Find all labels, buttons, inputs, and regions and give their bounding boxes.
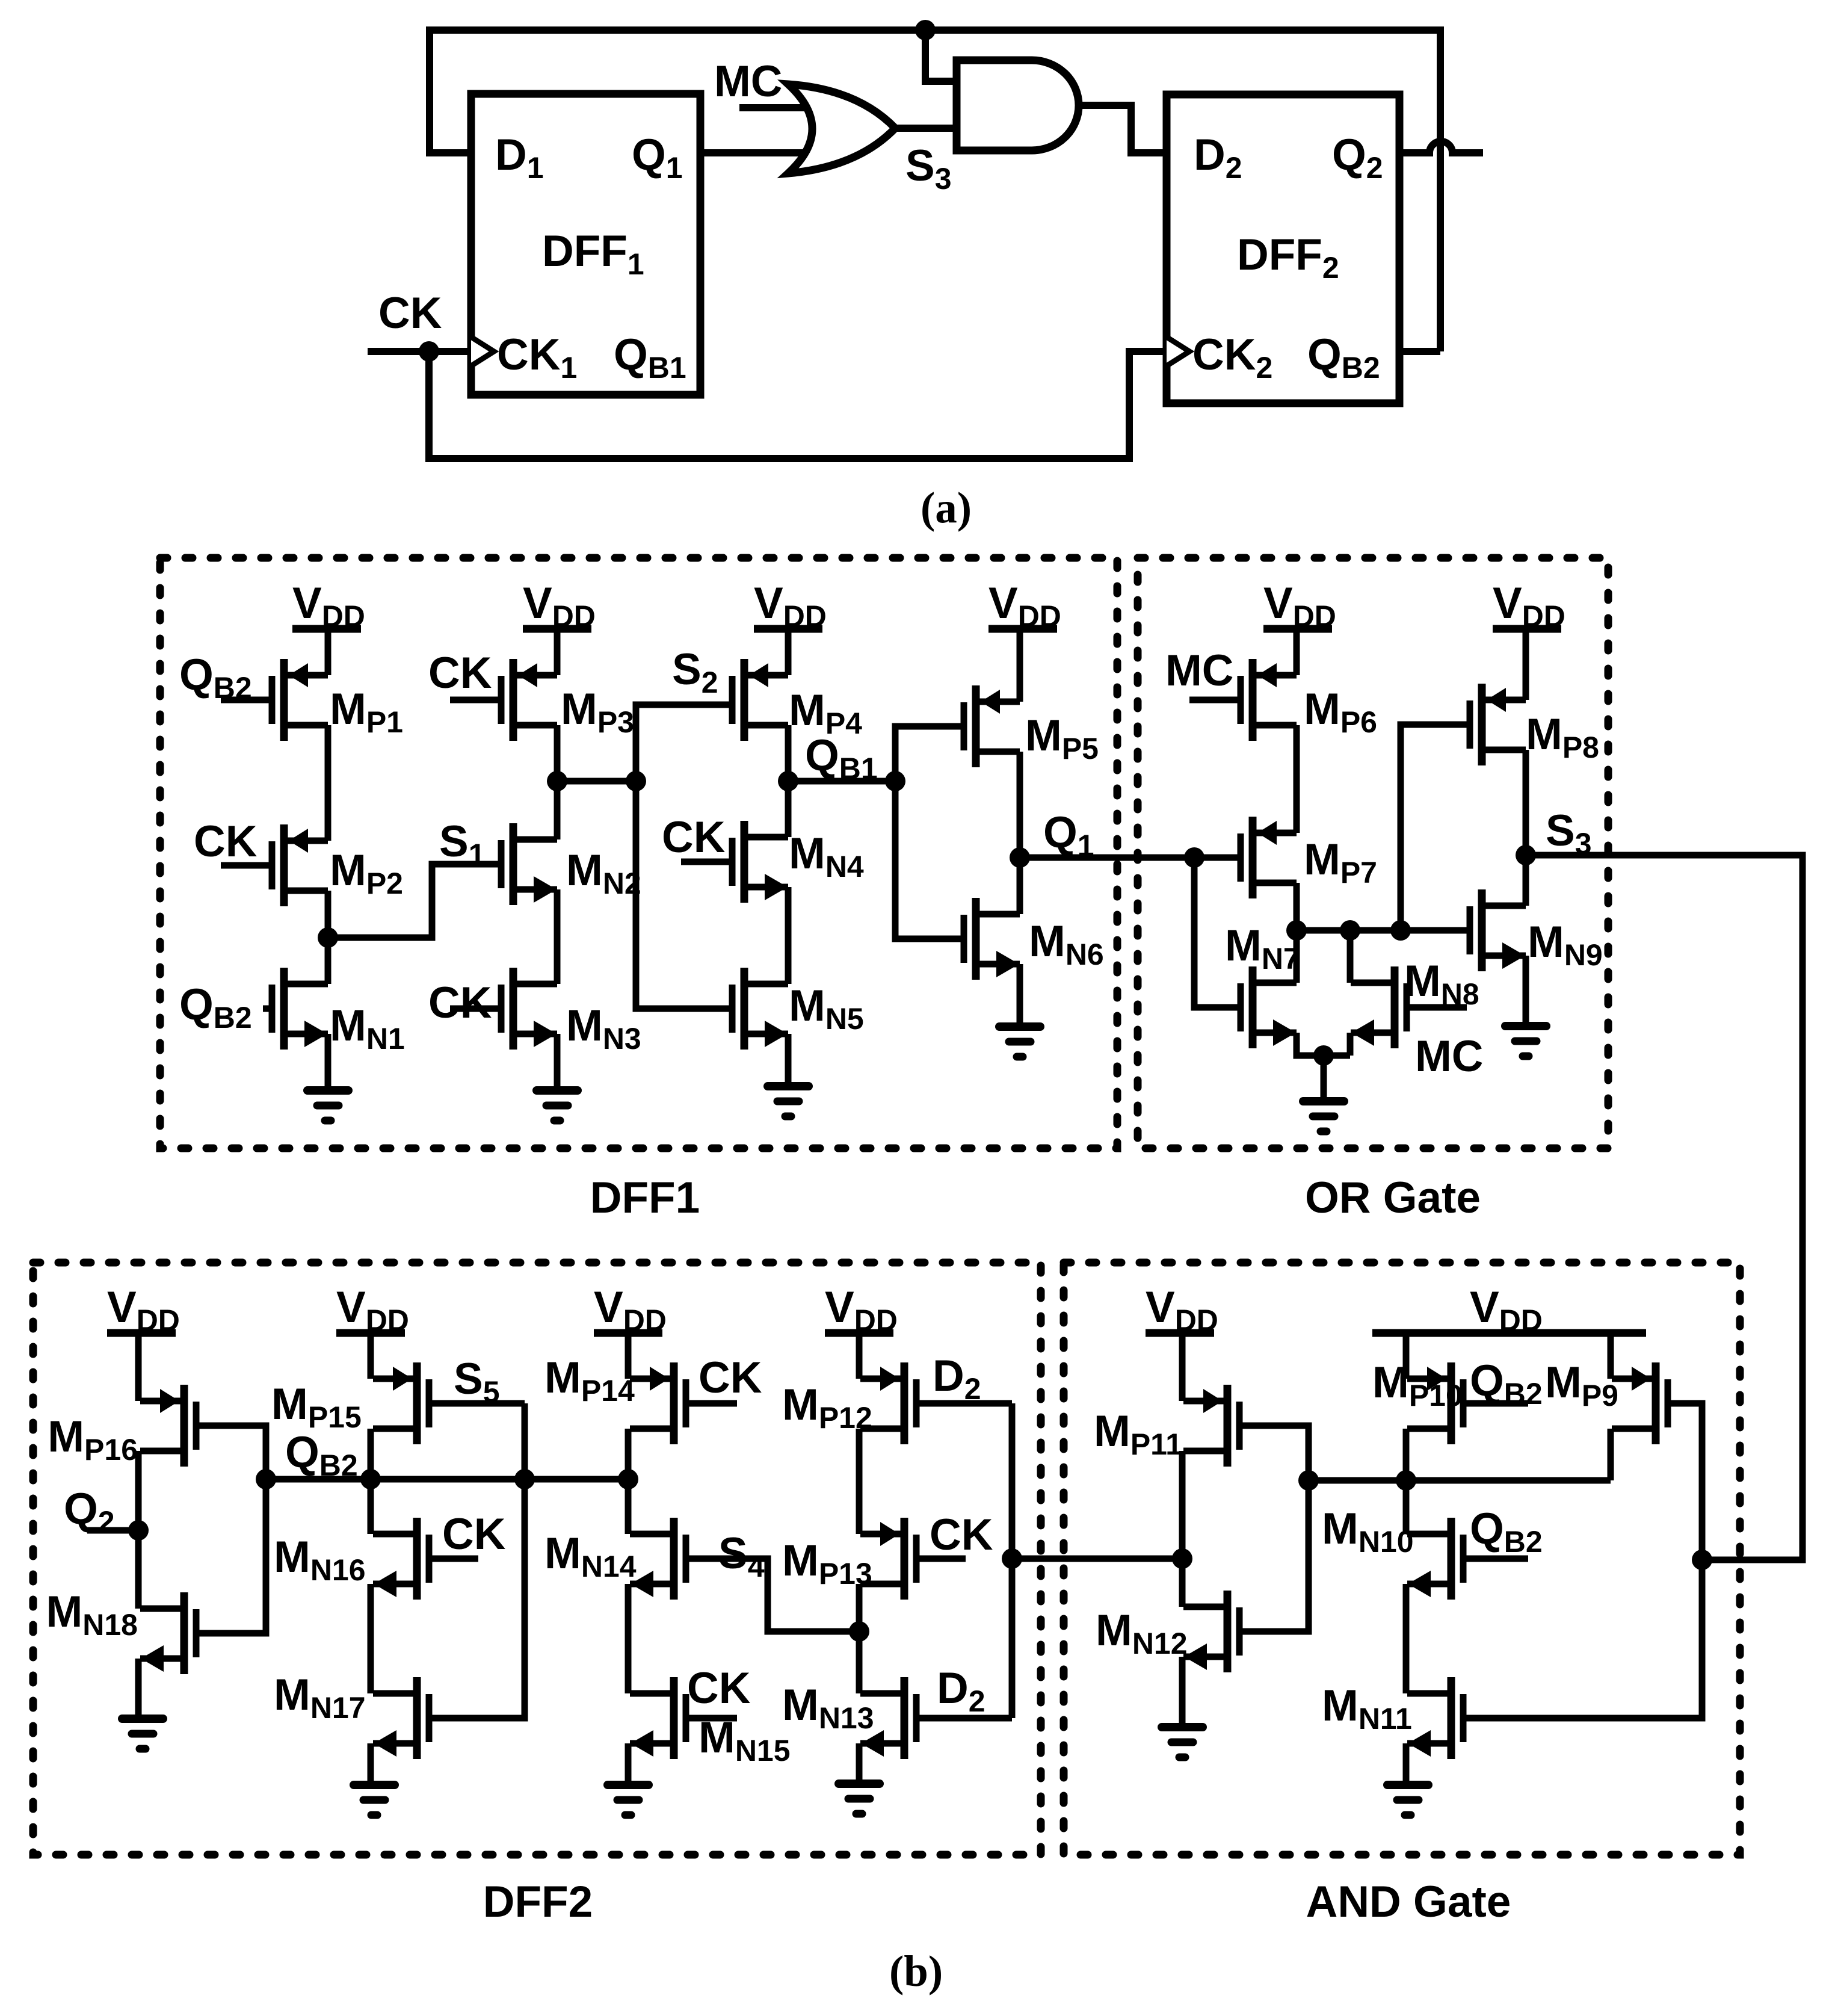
junction node CK <box>419 341 439 362</box>
junction net S3 at AND gate <box>1692 1550 1712 1570</box>
flip-flop block DFF2 <box>1167 94 1399 403</box>
transistor MN12 (NMOS) <box>1183 1591 1239 1672</box>
wire QB2 output to feedback <box>1399 348 1440 355</box>
transistor MP3 (PMOS) <box>501 659 557 741</box>
transistor MP16 (PMOS) <box>140 1385 196 1467</box>
device label MP4 <box>789 686 862 740</box>
power VDD rail above MP14 <box>594 1283 667 1337</box>
junction net D2 <box>1002 1548 1022 1569</box>
device label MN7 <box>1225 921 1300 976</box>
wire AND output to D2 <box>1077 105 1167 153</box>
wire MN9 drain to node S3 <box>1523 855 1529 906</box>
wire MN16 drain to QB2 rail <box>368 1479 374 1534</box>
caption (b) <box>889 1947 943 1996</box>
device label MP1 <box>330 685 403 739</box>
device label MP2 <box>330 846 403 900</box>
wire gate stub of MN1 <box>263 1006 272 1012</box>
transistor MN9 (NMOS) <box>1470 889 1526 971</box>
svg-text:DFF2: DFF2 <box>483 1878 593 1926</box>
device label MN1 <box>330 1001 405 1056</box>
power VDD rail above MP1 <box>292 579 365 633</box>
device label MP9 <box>1545 1358 1618 1412</box>
wire MC input to OR gate <box>739 104 815 111</box>
wire gate stub of MN3 <box>450 1006 501 1012</box>
wire NOR node horizontal <box>1297 927 1470 934</box>
wire MP15 drain to QB2 rail <box>368 1429 374 1479</box>
power VDD rail above MP3 <box>523 579 596 633</box>
transistor MP5 (PMOS) <box>964 685 1020 767</box>
wire MP7 drain to NOR node <box>1294 883 1300 930</box>
net label D2 top <box>933 1352 981 1406</box>
device label MN12 <box>1096 1606 1188 1660</box>
ground below MN18 <box>122 1719 163 1749</box>
wire NAND node horizontal <box>1309 1477 1611 1484</box>
wire MN10 drain to NAND node <box>1403 1480 1410 1534</box>
pin label CK2 <box>1192 330 1272 385</box>
svg-text:CK: CK <box>442 1510 506 1559</box>
gate input label CK of MN16 <box>442 1510 506 1559</box>
device label MN15 <box>699 1713 791 1767</box>
svg-text:CK: CK <box>687 1664 751 1713</box>
pin label CK1 <box>497 330 577 385</box>
wire VDD to MP3 source <box>554 629 561 675</box>
device label MN9 <box>1528 918 1603 972</box>
input label CK <box>378 289 442 338</box>
junction node on top feedback wire <box>915 20 936 40</box>
device label MN5 <box>789 982 864 1036</box>
power VDD rail above MP5 <box>988 579 1061 633</box>
transistor MN18 (NMOS) <box>140 1592 196 1674</box>
wire net D2 to AND gate output <box>1012 1556 1182 1562</box>
transistor MN5 (NMOS) <box>732 968 788 1050</box>
gate input label MC of MP6 <box>1165 646 1234 695</box>
ground below MN5 <box>768 1086 809 1116</box>
pin label QB2 (DFF2) <box>1307 330 1380 385</box>
clock triangle DFF1 <box>471 337 494 366</box>
junction NAND node at inverter gate riser <box>1298 1470 1319 1491</box>
device label MP6 <box>1304 685 1377 739</box>
AND gate U2 <box>957 60 1079 150</box>
gate input label QB2 of MP10 <box>1470 1356 1543 1411</box>
net label S2 <box>672 645 718 699</box>
wire MN17 source to ground <box>368 1743 374 1785</box>
transistor MP11 (PMOS) <box>1183 1385 1239 1467</box>
gate input label QB2 of MN1 <box>179 980 252 1034</box>
wire Q2 input stub <box>87 1527 138 1534</box>
svg-text:CK: CK <box>428 649 492 697</box>
wire MN18 drain to node Q2 <box>135 1530 142 1609</box>
wire MP1 drain to MP2 source <box>325 725 332 841</box>
wire Q2 output with crossover hop <box>1399 141 1483 153</box>
wire MN3 source to ground <box>554 1034 561 1090</box>
transistor MN11 (NMOS) <box>1407 1677 1463 1759</box>
svg-text:OR Gate: OR Gate <box>1305 1173 1481 1222</box>
junction node S2 right <box>626 771 646 791</box>
net label S3 (part a) <box>905 141 952 196</box>
wire MN6 drain to node Q1 <box>1017 858 1023 914</box>
junction node Q1 at OR gate input <box>1184 847 1204 868</box>
dashed box DFF1 section <box>160 558 1117 1148</box>
device label MN14 <box>544 1529 637 1583</box>
junction node QB1 left <box>778 771 798 791</box>
wire MN8 drain to NOR node <box>1347 930 1354 983</box>
wire MP4 drain to node QB1 <box>785 725 792 781</box>
device label MP5 <box>1025 711 1099 765</box>
junction node S3 <box>1516 845 1536 865</box>
junction QB2 rail at MP14 drain <box>618 1469 638 1489</box>
device label MN3 <box>566 1001 641 1056</box>
wire NOR node to MP8 gate <box>1401 725 1470 930</box>
transistor MN10 (NMOS) <box>1407 1518 1463 1600</box>
device label MP3 <box>561 685 634 739</box>
svg-text:AND Gate: AND Gate <box>1306 1878 1511 1926</box>
transistor MN15 (NMOS) <box>630 1677 686 1759</box>
svg-text:CK: CK <box>378 289 442 338</box>
net label Q2 <box>64 1485 115 1539</box>
wire Q1 to OR gate input <box>700 149 815 156</box>
net label S1 <box>439 817 486 871</box>
svg-text:(a): (a) <box>921 483 972 532</box>
transistor MN7 (NMOS) <box>1241 966 1297 1048</box>
wire MN12 source to ground <box>1179 1657 1186 1727</box>
transistor MN14 (NMOS) <box>630 1518 686 1600</box>
junction NOR node left <box>1286 920 1307 941</box>
svg-text:CK: CK <box>194 817 258 866</box>
section label DFF2 <box>483 1878 593 1926</box>
wire MN11 source to ground <box>1403 1743 1410 1785</box>
ground below MN1 <box>307 1090 348 1121</box>
wire VDD to MP12 source <box>856 1333 863 1379</box>
junction QB2 rail at S5 riser <box>514 1469 535 1489</box>
flip-flop block DFF1 <box>471 94 700 395</box>
transistor MP15 (PMOS) <box>373 1362 429 1444</box>
wire MP14 drain to QB2 rail <box>625 1429 632 1479</box>
svg-text:CK: CK <box>662 813 726 862</box>
wire MN4 drain to node QB1 <box>785 781 792 837</box>
device label MN6 <box>1029 917 1104 971</box>
net label S5 <box>454 1355 500 1409</box>
wire MP3 drain to node S2 <box>554 725 561 781</box>
wire MN2 source to MN3 drain <box>554 889 561 984</box>
junction node S4 <box>849 1621 869 1642</box>
wire MP12 drain to MP13 source <box>856 1429 863 1534</box>
clock triangle DFF2 <box>1167 337 1189 366</box>
svg-text:CK: CK <box>930 1510 993 1559</box>
wire gate stub of MN16 <box>429 1556 478 1562</box>
device label MP10 <box>1372 1358 1463 1412</box>
block label DFF2 <box>1237 230 1339 285</box>
device label MN11 <box>1322 1681 1412 1736</box>
wire net Q1 to MN7 gate <box>1194 858 1241 1007</box>
wire net S2 to MN5 gate <box>636 781 732 1009</box>
wire MN14 drain to QB2 rail <box>625 1479 632 1534</box>
power VDD rail above MP12 <box>825 1283 898 1337</box>
device label MP14 <box>544 1353 635 1408</box>
transistor MN16 (NMOS) <box>373 1518 429 1600</box>
device label MN13 <box>782 1681 874 1735</box>
svg-text:MC: MC <box>714 57 783 106</box>
device label MP8 <box>1526 710 1599 764</box>
wire MP8 drain to node S3 <box>1523 750 1529 855</box>
wire VDD to MP1 source <box>325 629 332 675</box>
wire VDD to MP5 source <box>1017 629 1023 702</box>
wire MN4 source to MN5 drain <box>785 887 792 984</box>
junction NOR node mid <box>1340 920 1360 941</box>
wire MN10 source to MN11 drain <box>1403 1584 1410 1693</box>
gate input label QB2 of MP1 <box>179 651 252 705</box>
transistor MP9 (PMOS) <box>1612 1362 1668 1444</box>
pin label D2 <box>1194 131 1242 185</box>
wire VDD to MP4 source <box>785 629 792 675</box>
wire MN8 source to common <box>1347 1033 1354 1056</box>
device label MP15 <box>271 1380 362 1434</box>
caption (a) <box>921 483 972 532</box>
wire node QB1 to MN6 gate <box>895 781 964 939</box>
transistor MP12 (PMOS) <box>860 1362 916 1444</box>
net label D2 bottom <box>937 1664 985 1718</box>
junction common source MN7 MN8 <box>1313 1045 1334 1066</box>
power VDD rail above MP11 <box>1146 1283 1218 1337</box>
net label S3 (part b) <box>1546 806 1592 861</box>
transistor MN4 (NMOS) <box>732 821 788 903</box>
wire gate stub of MN15 <box>686 1715 737 1722</box>
ground below MN6 <box>999 1027 1040 1057</box>
transistor MP10 (PMOS) <box>1407 1362 1463 1444</box>
device label MN2 <box>566 846 641 900</box>
wire gate stub of MN10 <box>1463 1556 1528 1562</box>
wire MN11 gate to net S3 <box>1463 1560 1702 1718</box>
wire MP2 drain to node S1 <box>325 891 332 938</box>
pin label QB1 (DFF1) <box>614 330 686 385</box>
device label MP13 <box>782 1536 872 1591</box>
wire MN6 source to ground <box>1017 964 1023 1027</box>
wire MN2 drain to node S2 <box>554 781 561 839</box>
svg-text:(b): (b) <box>889 1947 943 1996</box>
wire common source to ground <box>1321 1056 1327 1101</box>
wire net S1 to MN2 gate <box>328 864 500 938</box>
net label QB1 <box>805 731 878 785</box>
wire MN16 source to MN17 drain <box>368 1584 374 1693</box>
wire net S5 riser <box>429 1403 525 1718</box>
wire node QB1 horizontal <box>788 778 895 785</box>
wire MP9 gate to net S3 <box>1668 1403 1702 1560</box>
dashed box OR Gate section <box>1138 558 1608 1148</box>
wire MP15 gate to net S5 <box>429 1400 525 1407</box>
wire VDD to MP11 source <box>1179 1333 1186 1401</box>
device label MN10 <box>1322 1504 1414 1559</box>
wire gate stub of MP10 <box>1463 1400 1528 1407</box>
wire gate stub of MN4 <box>681 859 732 865</box>
wire VDD to MP15 source <box>368 1333 374 1379</box>
transistor MP13 (PMOS) <box>860 1518 916 1600</box>
device label MP7 <box>1304 835 1377 889</box>
transistor MP7 (PMOS) <box>1241 817 1297 898</box>
device label MN4 <box>789 829 864 883</box>
dashed box DFF2 section <box>33 1263 1041 1855</box>
wire VDD to MP9 source <box>1608 1333 1614 1379</box>
OR gate U1 <box>788 84 895 173</box>
svg-text:CK: CK <box>699 1353 762 1402</box>
net label S4 <box>718 1529 765 1583</box>
transistor MN3 (NMOS) <box>501 968 557 1050</box>
wire MN9 source to ground <box>1523 956 1529 1026</box>
pin label Q2 (DFF2) <box>1332 131 1383 185</box>
transistor MN13 (NMOS) <box>860 1677 916 1759</box>
ground below MN17 <box>354 1785 395 1815</box>
junction NAND node at MP10 drain <box>1396 1470 1416 1491</box>
device label MP12 <box>782 1381 872 1435</box>
gate input label CK of MP2 <box>194 817 258 866</box>
wire AND gate top input from feedback node <box>925 30 957 81</box>
wire MN12 drain to net D2 <box>1179 1559 1186 1607</box>
wire gate stub of MN8 <box>1407 1004 1467 1011</box>
svg-text:DFF1: DFF1 <box>590 1173 700 1222</box>
net label Q1 <box>1043 808 1094 862</box>
wire MP11 gate riser <box>1239 1426 1309 1631</box>
wire MN7 drain to NOR node <box>1294 930 1300 983</box>
ground below MN15 <box>608 1785 649 1815</box>
ground below MN11 <box>1387 1785 1428 1815</box>
gate input label CK of MN4 <box>662 813 726 862</box>
block label DFF1 <box>542 227 644 281</box>
transistor MP4 (PMOS) <box>732 659 788 741</box>
wire MP13 drain to node S4 <box>856 1584 863 1631</box>
device label MP16 <box>48 1412 138 1467</box>
wire net S2 to MP4 gate <box>636 705 732 781</box>
wire gate stub of MP3 <box>450 697 501 703</box>
pin label Q1 (DFF1) <box>632 131 683 185</box>
junction node QB1 right <box>885 771 905 791</box>
wire MP6 drain to MP7 source <box>1294 725 1300 833</box>
wire CK input <box>368 348 471 355</box>
wire net Q1 to OR gate <box>1020 855 1241 861</box>
input label MC <box>714 57 783 106</box>
gate input label CK of MP13 <box>930 1510 993 1559</box>
wire gate stub of MP1 <box>221 697 272 703</box>
wire net D2 riser <box>1009 1403 1016 1718</box>
junction net D2 at MP11 drain <box>1172 1548 1192 1569</box>
section label OR Gate <box>1305 1173 1481 1222</box>
transistor MN1 (NMOS) <box>272 968 328 1050</box>
power VDD rail above MP16 <box>107 1283 180 1337</box>
transistor MN2 (NMOS) <box>501 823 557 905</box>
junction node S1 <box>318 927 338 948</box>
wire net S3 to AND gate section <box>1526 855 1803 1560</box>
device label MN17 <box>274 1671 366 1725</box>
junction node Q1 <box>1010 847 1030 868</box>
wire MN14 source to MN15 drain <box>625 1584 632 1693</box>
wire gate stub of MP6 <box>1189 697 1241 703</box>
ground below MN7 MN8 <box>1303 1101 1344 1131</box>
wire MP16 drain to node Q2 <box>135 1451 142 1530</box>
wire CK to CK2 <box>429 351 1167 459</box>
wire MP16 gate to QB2 rail <box>196 1426 266 1633</box>
transistor MN17 (NMOS) <box>373 1677 429 1759</box>
ground below MN13 <box>839 1784 880 1814</box>
power VDD rail above MP6 <box>1263 579 1336 633</box>
transistor MP1 (PMOS) <box>272 659 328 741</box>
net label QB2 (DFF2) <box>285 1428 358 1482</box>
wire MN1 drain to node S1 <box>325 938 332 984</box>
junction QB2 rail at MP16 gate riser <box>256 1469 276 1489</box>
wire node S2 horizontal <box>557 778 636 785</box>
wire gate stub of MP13 <box>916 1556 966 1562</box>
gate input label CK of MP3 <box>428 649 492 697</box>
svg-text:CK: CK <box>428 979 492 1027</box>
wire MN7 source to common <box>1297 1033 1350 1056</box>
wire MP11 drain to net D2 <box>1179 1451 1186 1559</box>
transistor MP6 (PMOS) <box>1241 659 1297 741</box>
device label MN18 <box>46 1588 138 1642</box>
wire MN18 source to ground <box>135 1659 142 1719</box>
wire VDD to MP8 source <box>1523 629 1529 700</box>
wire VDD to MP16 source <box>135 1333 142 1401</box>
ground below MN9 <box>1505 1026 1546 1056</box>
wire OR output S3 to AND input <box>895 125 957 132</box>
power VDD rail above MP15 <box>336 1283 409 1337</box>
gate input label QB2 of MN10 <box>1470 1504 1543 1559</box>
device label MN16 <box>274 1533 366 1587</box>
gate input label CK of MN3 <box>428 979 492 1027</box>
transistor MP14 (PMOS) <box>630 1362 686 1444</box>
wire MN15 source to ground <box>625 1743 632 1785</box>
svg-text:MC: MC <box>1165 646 1234 695</box>
gate input label CK of MN15 <box>687 1664 751 1713</box>
wire VDD to MP6 source <box>1294 629 1300 675</box>
svg-text:MC: MC <box>1415 1032 1484 1081</box>
wire MP5 drain to node Q1 <box>1017 752 1023 858</box>
junction node S2 left <box>547 771 567 791</box>
power VDD rail above MP8 <box>1493 579 1565 633</box>
device label MN8 <box>1404 957 1479 1011</box>
transistor MN6 (NMOS) <box>964 898 1020 980</box>
ground below MN3 <box>537 1090 578 1121</box>
junction QB2 rail at MP15 drain <box>360 1469 381 1489</box>
junction node Q2 <box>128 1520 149 1541</box>
power VDD rail above MP10 MP9 (wide) <box>1372 1283 1646 1337</box>
wire feedback top from QB2 to D1 <box>430 30 1440 351</box>
wire MN5 source to ground <box>785 1034 792 1086</box>
pin label D1 <box>495 131 544 185</box>
wire VDD to MP10 source <box>1403 1333 1410 1379</box>
wire MN13 gate to net D2 <box>916 1715 1012 1722</box>
power VDD rail above MP4 <box>754 579 827 633</box>
section label DFF1 <box>590 1173 700 1222</box>
wire MN14 gate to net S4 <box>686 1559 859 1631</box>
wire MP9 drain to NAND node <box>1608 1429 1614 1480</box>
dashed box AND Gate section <box>1064 1263 1740 1855</box>
section label AND Gate <box>1306 1878 1511 1926</box>
junction NOR node right <box>1390 920 1411 941</box>
wire gate stub of MP14 <box>686 1400 737 1407</box>
wire MN13 source to ground <box>856 1743 863 1784</box>
wire node QB1 to MP5 gate <box>895 726 964 781</box>
wire VDD to MP14 source <box>625 1333 632 1379</box>
wire gate stub of MP2 <box>221 862 272 869</box>
gate input label CK of MP14 <box>699 1353 762 1402</box>
transistor MP2 (PMOS) <box>272 824 328 906</box>
wire MN13 drain to node S4 <box>856 1631 863 1693</box>
ground below MN12 <box>1162 1727 1203 1757</box>
wire node QB2 rail <box>266 1476 628 1483</box>
wire MP12 gate to net D2 <box>916 1400 1012 1407</box>
device label MP11 <box>1094 1407 1182 1461</box>
wire MN1 source to ground <box>325 1034 332 1090</box>
gate input label MC of MN8 <box>1415 1032 1484 1081</box>
transistor MP8 (PMOS) <box>1470 684 1526 765</box>
wire MP10 drain to NAND node <box>1403 1429 1410 1480</box>
transistor MN8 (NMOS) <box>1351 966 1407 1048</box>
